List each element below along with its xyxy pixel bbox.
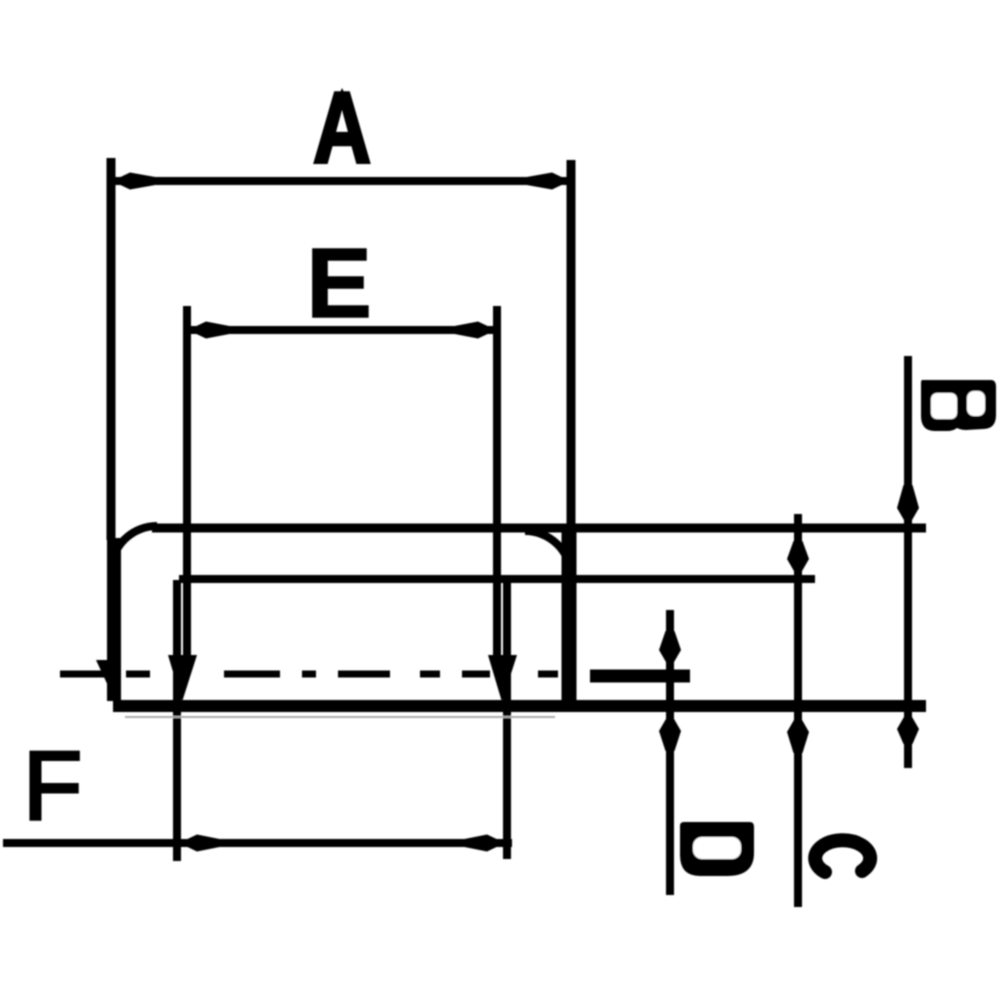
dimension B: top arrowhead: [897, 485, 919, 527]
part outline: second top line H2: [179, 575, 815, 583]
dimension E: extension line right: [493, 306, 501, 660]
dimension C: label C (rotated): [815, 840, 870, 872]
dimension B: label B (rotated): [921, 380, 996, 431]
dimension C: bottom arrowhead: [787, 713, 809, 753]
part inner-right edge (also extension line for F): [503, 580, 511, 859]
part outline: bottom line H3: [113, 700, 926, 712]
dimension F: left arrowhead: [179, 835, 222, 852]
dimension E: left arrowhead: [188, 322, 232, 339]
dimension B: bottom arrowhead: [897, 710, 919, 744]
svg-text:E: E: [306, 228, 371, 338]
part inner-left edge (also extension line for F): [173, 580, 181, 861]
dimension E: arrow blob at right bore edge: [488, 655, 517, 702]
part outline: right edge lower (thicker scan stroke): [562, 528, 577, 708]
part outline: left edge (also extension line for A): [107, 158, 116, 540]
svg-text:F: F: [23, 731, 82, 840]
part outline: top-left rounded corner: [111, 526, 157, 572]
part outline: left edge lower (thicker scan stroke): [107, 538, 121, 701]
dimension E: right arrowhead: [452, 322, 496, 339]
dimension A: dimension line: [108, 177, 571, 185]
dimension D: bottom arrowhead: [659, 712, 681, 751]
dimension F: right arrowhead: [462, 835, 505, 852]
dimension D: label D (rotated): [680, 822, 754, 876]
dimension C: top arrowhead: [787, 541, 809, 578]
svg-text:A: A: [313, 73, 371, 185]
centerline (dash-dot axis): [60, 671, 558, 678]
dimension A: right arrowhead: [524, 173, 570, 190]
dimension E: arrow blob at left bore edge: [168, 655, 197, 702]
dimension E: extension line left: [183, 306, 191, 660]
part outline: top line H1: [152, 524, 926, 533]
dimension E: dimension line: [186, 326, 497, 334]
dimension A: left arrowhead: [112, 173, 158, 190]
dimension D: extension/dimension line: [666, 610, 674, 895]
dimension C: extension/dimension line: [794, 514, 802, 907]
dimension F: dimension line: [3, 839, 512, 847]
dimension D: top arrowhead: [659, 631, 681, 669]
small dart on left edge at centerline: [96, 660, 116, 690]
dimension B: extension/dimension line: [904, 356, 912, 768]
part outline: right edge (also extension line for A): [567, 160, 576, 530]
part outline: top-right inner rounded corner: [525, 531, 571, 577]
dimension A: apex spike of letter A (scan artifact): [336, 88, 349, 102]
faint scan ghost line below bottom line: [125, 716, 555, 718]
